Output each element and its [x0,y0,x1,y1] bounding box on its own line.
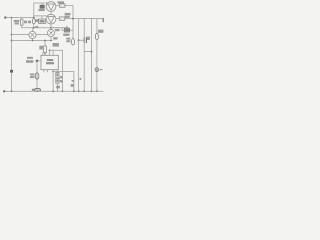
IC bottom pin x57.4 with boxes [56,70,58,73]
input terminal [4,16,6,18]
wire Q3 emitter down [32,39,34,41]
wire Q3 collector up [32,28,34,31]
capacitor C5 oval on x73 [71,39,74,45]
node branch A [11,34,13,36]
ground terminal [3,90,5,92]
wire vertical x33.8 top [33,3,35,19]
wire v4 x96.9 [96,19,98,33]
wire R2 top lead [21,18,23,20]
node input junction [11,17,13,19]
wire Q4 emitter down [50,37,52,41]
wire v3 x91.4 [90,19,92,92]
capacitor C8 oval on v4 [95,33,98,40]
resistor R7 vertical above IC [44,46,47,52]
IC bottom pin x53 [52,70,54,92]
wire y71.4 out [53,71,74,91]
wire R2 bottom lead to y28 [22,25,67,28]
transistor Q2 [46,14,56,24]
ground bus bottom [5,90,103,92]
wire branch y40 [12,40,53,42]
bus junction dots [11,90,13,92]
resistor R1 box under y3 [41,3,43,5]
IC left pin dot [36,60,39,63]
wire x73 vertical [72,6,74,39]
transistor Q1 [46,2,56,12]
text smudges [14,1,104,90]
wire link v2-v3 [84,51,91,53]
capacitor link v1-v2 [79,39,84,41]
IC top pins [49,50,51,55]
IC U1 box [41,55,58,69]
wire Q2 base line [34,15,47,17]
capacitor C7 blob on bus [34,88,40,91]
node branch B [11,40,13,42]
wire branch y34 [12,34,48,36]
wire Q1 emitter to Q2 [50,11,52,14]
wire v2 x84.2 [83,19,85,92]
capacitor C1 oval on vertical x33.8 [32,19,35,24]
resistor R3 box [39,19,46,24]
node dot y28 [33,27,35,29]
wire x37 down [36,61,38,88]
capacitor C6 oval on x37 [35,73,39,79]
lamp symbol on v4 [95,68,99,72]
node dot x73 rail [72,18,74,20]
transistor Q4 [47,29,54,36]
resistor R2 vertical at input [20,19,23,25]
resistor R5 box [60,4,66,7]
node dot x62.5 bus [62,90,64,92]
wire y50 to corner [50,50,63,91]
wire vertical x33.8 bottom [33,24,35,28]
node dot x51 y27.8 [50,27,52,29]
wire input rail [5,17,33,19]
wire right end stub [102,19,104,22]
resistor R6 box [59,17,65,20]
wire Q1 collector out y5.6 [56,5,73,7]
wire y27.8 to pot corner [51,28,62,30]
node junction rail/cap [33,17,35,19]
potentiometer P1 [62,29,73,31]
component blob on left bus [10,70,13,73]
wire v1 x78.6 [78,19,80,92]
wire Q2 collector out rail y18.6 [56,18,104,20]
wire left ground bus vertical [11,18,13,92]
transistor Q3 [29,31,36,38]
wire Q2 emitter down to Q4 [50,24,52,29]
wire top horizontal y3 [34,2,48,4]
